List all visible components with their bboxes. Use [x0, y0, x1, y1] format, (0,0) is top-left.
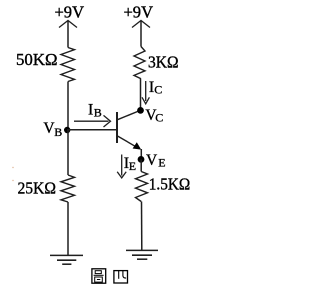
svg-text:1.5KΩ: 1.5KΩ	[149, 175, 191, 194]
current IC arrow	[142, 81, 149, 104]
power arrow up (right supply)	[132, 21, 150, 47]
svg-text:V: V	[146, 152, 158, 169]
wire: RE to right ground	[141, 202, 143, 251]
svg-text:3KΩ: 3KΩ	[148, 53, 179, 72]
svg-text:50KΩ: 50KΩ	[16, 50, 58, 69]
node VC	[137, 107, 144, 114]
scan speck near 25KΩ	[12, 167, 13, 181]
wire: R2 to left ground	[67, 202, 69, 255]
label VC	[145, 107, 163, 124]
wire: left branch node VB to R2	[67, 130, 69, 175]
svg-text:B: B	[54, 125, 62, 139]
svg-text:+9V: +9V	[55, 3, 85, 22]
caption character 圖 (Figure)	[92, 269, 106, 283]
caption character 四 (four)	[114, 271, 128, 283]
current IE arrow	[117, 155, 126, 178]
wire: base (node VB to transistor base)	[67, 129, 116, 131]
node VB	[64, 127, 70, 133]
resistor RC 3KΩ	[134, 47, 145, 79]
resistor RE 1.5KΩ	[136, 172, 148, 202]
wire: emitter arrow to node VE	[140, 149, 142, 160]
resistor R2 25KΩ	[61, 175, 75, 202]
wire: RC to node VC	[140, 79, 142, 111]
resistor R1 50KΩ	[61, 48, 75, 82]
label IB	[88, 101, 102, 119]
label IC	[149, 79, 162, 96]
node VE	[138, 156, 145, 163]
svg-text:+9V: +9V	[124, 3, 154, 22]
svg-text:E: E	[158, 156, 165, 170]
transistor Q1 (NPN)	[117, 111, 141, 150]
ground (right)	[126, 250, 158, 259]
power arrow up (left supply)	[59, 21, 77, 48]
label IE	[124, 155, 136, 173]
svg-text:I: I	[88, 101, 93, 118]
svg-text:C: C	[155, 111, 163, 125]
wire: left branch R1 to node VB	[67, 82, 69, 131]
wire: node VE to RE	[140, 159, 142, 171]
label VB	[43, 120, 62, 139]
label VE	[146, 152, 166, 170]
svg-text:25KΩ: 25KΩ	[18, 179, 57, 198]
svg-text:B: B	[94, 106, 102, 120]
svg-text:C: C	[154, 82, 162, 96]
ground (left)	[50, 255, 83, 264]
svg-text:E: E	[129, 159, 136, 173]
current IB arrow	[74, 115, 111, 127]
